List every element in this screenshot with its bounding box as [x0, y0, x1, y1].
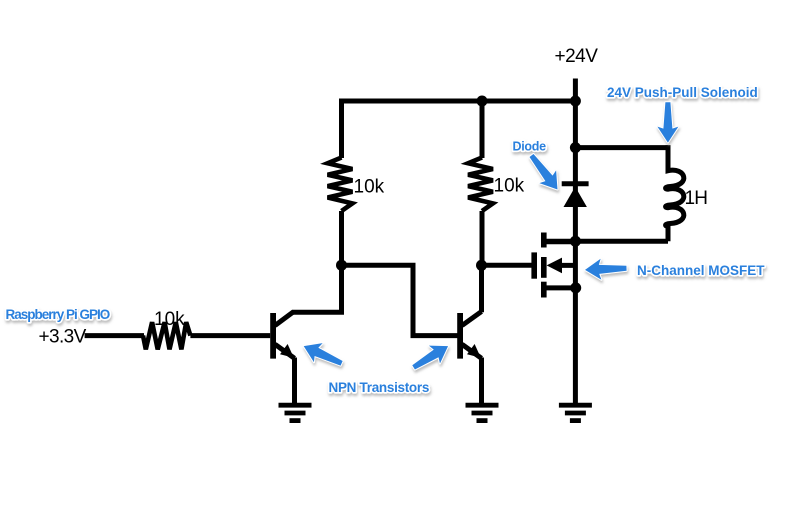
svg-text:NPN Transistors: NPN Transistors — [329, 380, 430, 395]
annotation label: NPN Transistors — [329, 380, 430, 395]
junction dot: rail / drain — [570, 236, 581, 247]
svg-text:24V Push-Pull Solenoid: 24V Push-Pull Solenoid — [607, 85, 758, 100]
wire: node B to MOSFET gate — [482, 263, 533, 268]
wire: R2 top lead — [480, 101, 485, 158]
transistor U1 N-channel MOSFET — [531, 233, 575, 298]
wire: Q1 emitter to ground — [292, 358, 297, 404]
annotation arrow: MOSFET — [585, 258, 627, 281]
transistor Q1 (NPN) — [270, 312, 294, 359]
svg-text:10k: 10k — [494, 176, 525, 197]
wire: Q2 emitter to ground — [479, 358, 484, 404]
junction dot: node B (Q2 collector / R2 / gate) — [476, 260, 487, 271]
annotation arrow: solenoid — [657, 102, 678, 142]
resistor R2 — [468, 158, 493, 212]
wire: R3 to Q1 base — [190, 333, 270, 338]
wire: Q1 collector vertical — [339, 265, 344, 312]
diode D1 — [562, 184, 589, 207]
wire: R1 bottom lead — [339, 211, 344, 265]
annotation label: 24V Push-Pull Solenoid — [607, 85, 758, 100]
ground (Q1 emitter) — [279, 405, 312, 420]
wire: R1 top lead — [339, 101, 344, 158]
ground (source rail) — [559, 405, 592, 420]
wire: MOSFET drain / solenoid bottom bus — [546, 239, 668, 244]
annotation arrow: Diode — [523, 149, 566, 196]
inductor L1 (solenoid coil) — [666, 145, 684, 241]
svg-text:10k: 10k — [154, 309, 185, 330]
junction dot: rail / source — [570, 282, 581, 293]
wire: +24V vertical rail — [573, 79, 578, 404]
wire: R2 bottom lead — [480, 211, 485, 265]
svg-text:Raspberry Pi GPIO: Raspberry Pi GPIO — [6, 307, 110, 322]
annotation arrow: NPN left — [299, 337, 346, 373]
wire: top bus horizontal — [342, 101, 576, 104]
resistor R1 — [328, 158, 353, 212]
resistor R3 (10k base series) — [143, 322, 190, 349]
annotation label: Raspberry Pi GPIO — [6, 307, 110, 322]
svg-text:N-Channel MOSFET: N-Channel MOSFET — [637, 263, 765, 278]
annotation label: N-Channel MOSFET — [637, 263, 765, 278]
annotation label: Diode — [513, 140, 547, 154]
wire: Q2 collector vertical — [479, 265, 484, 312]
wire: +3.3V to R3 — [85, 333, 144, 338]
svg-text:Diode: Diode — [513, 140, 547, 154]
transistor Q2 (NPN) — [457, 312, 481, 359]
wire: rail to solenoid top — [575, 145, 668, 150]
wire: node A to Q2 base — [342, 265, 459, 335]
annotation arrow: NPN right — [408, 337, 453, 376]
svg-text:+24V: +24V — [555, 46, 599, 67]
junction dot: rail / solenoid top — [570, 142, 581, 153]
svg-text:+3.3V: +3.3V — [39, 327, 87, 348]
svg-text:1H: 1H — [685, 188, 708, 209]
wire: Q1 collector horizontal — [292, 310, 344, 315]
svg-text:10k: 10k — [354, 177, 385, 198]
junction dot: node A (Q1 collector / R1 / Q2 base) — [336, 260, 347, 271]
junction dot: bus / R2 — [477, 96, 488, 107]
junction dot: bus / +24V rail — [570, 96, 581, 107]
ground (Q2 emitter) — [466, 405, 499, 420]
